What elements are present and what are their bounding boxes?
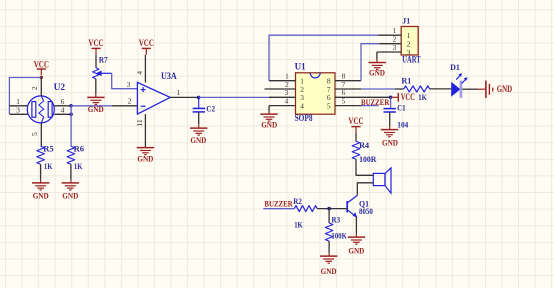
svg-text:R3: R3 (332, 215, 341, 225)
wire U2 output to op-amp pin 2 (71, 105, 137, 107)
wire R7 wiper to op-amp pin 3 (112, 73, 138, 88)
label SOP8 (295, 113, 313, 123)
wire op-amp pin 11 to ground (144, 114, 146, 147)
svg-text:VCC: VCC (88, 38, 103, 48)
ground below Q1 (348, 237, 365, 256)
value 1K of R5 (44, 161, 53, 171)
power ground right of D1 (486, 81, 513, 98)
svg-text:J1: J1 (402, 16, 410, 26)
ground below U1 pin 4 (260, 114, 277, 130)
resistor R1 (404, 86, 430, 92)
svg-text:4: 4 (61, 106, 65, 115)
svg-text:UART: UART (402, 55, 420, 65)
svg-text:3: 3 (407, 48, 411, 57)
wire J1 pin 3 stub (377, 51, 401, 53)
potentiometer R7 (93, 68, 99, 79)
wire U1 pin 7 to R1 (361, 88, 404, 90)
junction dot at U1 pin 6 net (389, 96, 393, 100)
wire U1 pin 5 stub (335, 105, 361, 107)
LED D1 (451, 73, 467, 98)
pin number 1 of J1 (393, 26, 397, 35)
ground below C2 (190, 128, 207, 145)
label R2 (293, 196, 302, 206)
wire VCC to op-amp pin 4 (144, 55, 146, 83)
svg-text:SOP8: SOP8 (295, 113, 313, 123)
wire R1 to LED D1 (430, 88, 452, 90)
svg-text:11: 11 (135, 119, 144, 127)
svg-text:8050: 8050 (359, 206, 373, 216)
junction dot U2 pin 6 (69, 104, 73, 108)
value 8050 of Q1 (359, 206, 373, 216)
svg-text:3: 3 (393, 43, 397, 52)
label Q1 (359, 198, 369, 208)
wire R5 to ground (40, 164, 42, 182)
pin number 7 of U1 (342, 80, 346, 89)
label R7 (99, 54, 109, 64)
wire U2 pin 6 stub (54, 105, 71, 107)
svg-text:GND: GND (321, 266, 337, 276)
wire U1 pin 7 stub (335, 88, 361, 90)
svg-text:R2: R2 (293, 196, 302, 206)
wire joining pins 6 and 4 down to R6 (70, 106, 72, 146)
wire J1 pin 2 stub (379, 43, 401, 45)
wire R4 to speaker (356, 159, 373, 175)
svg-text:4: 4 (135, 71, 144, 75)
pin number 2 of U3A (128, 97, 132, 106)
value 104 of C1 (397, 120, 409, 130)
svg-text:VCC: VCC (401, 92, 415, 102)
pin name numbers inside J1 (407, 31, 411, 57)
wire op-amp output pin 1 (170, 96, 198, 98)
svg-text:4: 4 (285, 96, 289, 105)
value 100R of R4 (359, 154, 377, 164)
ground below R5 (32, 183, 49, 201)
svg-text:1K: 1K (418, 92, 427, 102)
label C1 (397, 103, 406, 113)
wire C2 to ground (198, 112, 200, 128)
wire U1 pin 6 to C1 (390, 97, 392, 108)
value 1K of R6 (74, 161, 83, 171)
resistor R3 (325, 223, 333, 241)
svg-text:VCC: VCC (139, 38, 154, 48)
speaker LS1 (373, 168, 391, 193)
svg-text:U2: U2 (54, 82, 66, 92)
label J1 (402, 16, 410, 26)
svg-text:1K: 1K (74, 161, 83, 171)
resistor R6 (67, 146, 75, 164)
svg-text:5: 5 (30, 132, 39, 136)
label R4 (359, 140, 370, 150)
svg-text:1: 1 (177, 88, 181, 97)
ground below R6 (62, 183, 79, 201)
svg-text:GND: GND (62, 191, 78, 201)
wire U2 pin 4 stub (54, 113, 71, 115)
junction dot at R3 top (327, 207, 331, 211)
power port VCC (U2 supply) (34, 60, 49, 76)
capacitor C2 (193, 108, 205, 112)
connector J1 body (401, 27, 418, 56)
wire R2 to Q1 base (317, 208, 347, 210)
svg-text:BUZZER: BUZZER (264, 198, 293, 208)
wire junction to R3 (328, 209, 330, 223)
junction dot at op-amp output (197, 96, 201, 100)
svg-text:BUZZER: BUZZER (361, 97, 390, 107)
svg-text:R1: R1 (401, 75, 411, 85)
wire U2 pin 5 (bottom) (40, 123, 42, 146)
wire U1 pin 4 to ground (268, 106, 270, 114)
svg-text:1K: 1K (44, 161, 53, 171)
svg-text:5: 5 (342, 96, 346, 105)
svg-text:GND: GND (137, 153, 153, 163)
pin number 6 of U2 (61, 97, 65, 106)
pin number 3 of U2 (16, 106, 20, 115)
label R5 (43, 144, 54, 154)
wire U1 pin 6 stub (335, 96, 391, 98)
svg-text:R5: R5 (43, 144, 54, 154)
pin number 1 of U3A (177, 88, 181, 97)
value 1K of R2 (294, 220, 303, 230)
value 100K of R3 (332, 230, 348, 240)
resistor R2 (294, 206, 317, 212)
IC U1 SOP8 body (296, 73, 336, 114)
pin number 3 of U1 (285, 88, 289, 97)
label C2 (206, 103, 215, 113)
svg-text:2: 2 (30, 86, 39, 90)
svg-text:D1: D1 (450, 62, 460, 72)
junction dot U2 pin 4 (69, 113, 73, 117)
wiper arrow of R7 (96, 71, 112, 77)
wire U2 pin 1 stub (9, 105, 27, 107)
wire BUZZER to R2 (263, 208, 294, 210)
resistor R5 (37, 146, 45, 164)
gas sensor U2 (27, 96, 54, 123)
svg-text:GND: GND (190, 135, 206, 145)
net label BUZZER at R2 (264, 198, 293, 208)
svg-text:U1: U1 (295, 62, 306, 72)
wire U2 pin 3 stub (9, 113, 27, 115)
resistor R4 (352, 141, 360, 159)
wire speaker to Q1 collector (357, 183, 373, 196)
power port VCC (R7) (88, 38, 103, 55)
pin number 1 of U1 (285, 72, 289, 81)
label R3 (332, 215, 341, 225)
svg-text:GND: GND (261, 120, 277, 130)
transistor Q1 (347, 195, 357, 217)
svg-text:5: 5 (327, 101, 331, 110)
pin number 1 of U2 (16, 97, 20, 106)
label U1 (295, 62, 306, 72)
svg-text:GND: GND (382, 137, 398, 147)
pin name numbers inside U1 (300, 77, 331, 111)
svg-text:U3A: U3A (161, 71, 177, 81)
svg-text:3: 3 (127, 80, 131, 89)
label R1 (401, 75, 411, 85)
ground below R3 (320, 256, 337, 276)
wire U1 pin 8 stub (335, 80, 361, 82)
svg-text:GND: GND (348, 246, 364, 256)
pin number 6 of U1 (342, 88, 346, 97)
wire op-amp output to U1 pin 3 (199, 96, 269, 98)
svg-text:3: 3 (16, 106, 20, 115)
wire R7 to ground (95, 79, 97, 97)
svg-text:GND: GND (33, 191, 49, 201)
capacitor C1 (384, 109, 396, 112)
wire U1 pin 8 to J1 pin 2 (361, 44, 379, 81)
pin number 8 of U1 (342, 72, 346, 81)
svg-text:104: 104 (397, 120, 409, 130)
wire U1 pin 1 to J1 pin 1 (269, 35, 378, 80)
op-amp U3A (137, 82, 170, 114)
pin number 3 of U3A (127, 80, 131, 89)
svg-text:4: 4 (300, 101, 304, 110)
svg-text:GND: GND (369, 67, 385, 77)
power port VCC (U3A) (139, 38, 154, 55)
wire from VCC node to U2 pins 1,3 (9, 78, 41, 115)
ground below op-amp (137, 148, 154, 164)
svg-text:R6: R6 (74, 144, 85, 154)
svg-text:VCC: VCC (348, 116, 363, 126)
label R6 (74, 144, 85, 154)
wire U1 pin 4 stub (269, 105, 296, 107)
ground below R7 (87, 97, 104, 114)
power port VCC at U1 pin 6 (391, 92, 415, 102)
svg-text:1K: 1K (294, 220, 303, 230)
pin number 4 of U2 (61, 106, 65, 115)
wire VCC to R4 (355, 133, 357, 141)
net label BUZZER at U1 pin 5 (361, 97, 390, 107)
pin number 2 of J1 (393, 35, 397, 44)
pin number 5 of U2 (rotated) (30, 132, 39, 136)
ground below J1 (369, 63, 386, 78)
pin number 3 of J1 (393, 43, 397, 52)
wire VCC to R7 (95, 55, 97, 68)
value 1K of R1 (418, 92, 427, 102)
wire U1 pin 2 stub (unconnected) (265, 88, 296, 90)
pin number 4 of U1 (285, 96, 289, 105)
pin number 4 of U3A (rotated) (135, 71, 144, 75)
svg-text:C1: C1 (397, 103, 406, 113)
svg-text:R4: R4 (359, 140, 370, 150)
wire R3 to ground (328, 241, 330, 256)
pin number 2 of U1 (285, 80, 289, 89)
label U3A (161, 71, 177, 81)
svg-text:VCC: VCC (34, 60, 49, 70)
label U2 (54, 82, 66, 92)
svg-text:100R: 100R (359, 154, 377, 164)
svg-text:GND: GND (497, 84, 513, 94)
wire J1 pin 1 stub (378, 34, 401, 36)
svg-text:C2: C2 (206, 103, 215, 113)
wire LED D1 to ground (462, 88, 485, 90)
wire U1 pin 1 stub (269, 80, 296, 82)
ground below C1 (381, 130, 398, 148)
pin number 11 of U3A (rotated) (135, 119, 144, 127)
power port VCC (R4) (348, 116, 363, 133)
pin number 2 of U2 (rotated) (30, 86, 39, 90)
junction dot at VCC node of U2 (40, 76, 43, 79)
wire U1 pin 3 stub (269, 96, 296, 98)
wire output junction to C2 (198, 97, 200, 108)
wire J1 pin 3 to ground (376, 52, 378, 62)
wire U1 pin 5 net stub (361, 105, 378, 107)
svg-text:100K: 100K (332, 230, 348, 240)
wire U2 pin 2 (top) to VCC node (40, 78, 42, 96)
svg-text:2: 2 (128, 97, 132, 106)
wire R6 to ground (70, 164, 72, 182)
pin number 5 of U1 (342, 96, 346, 105)
wire C1 to ground (389, 112, 391, 129)
label D1 (450, 62, 460, 72)
label UART (402, 55, 420, 65)
svg-text:R7: R7 (99, 54, 109, 64)
wire Q1 emitter to ground (355, 217, 357, 237)
